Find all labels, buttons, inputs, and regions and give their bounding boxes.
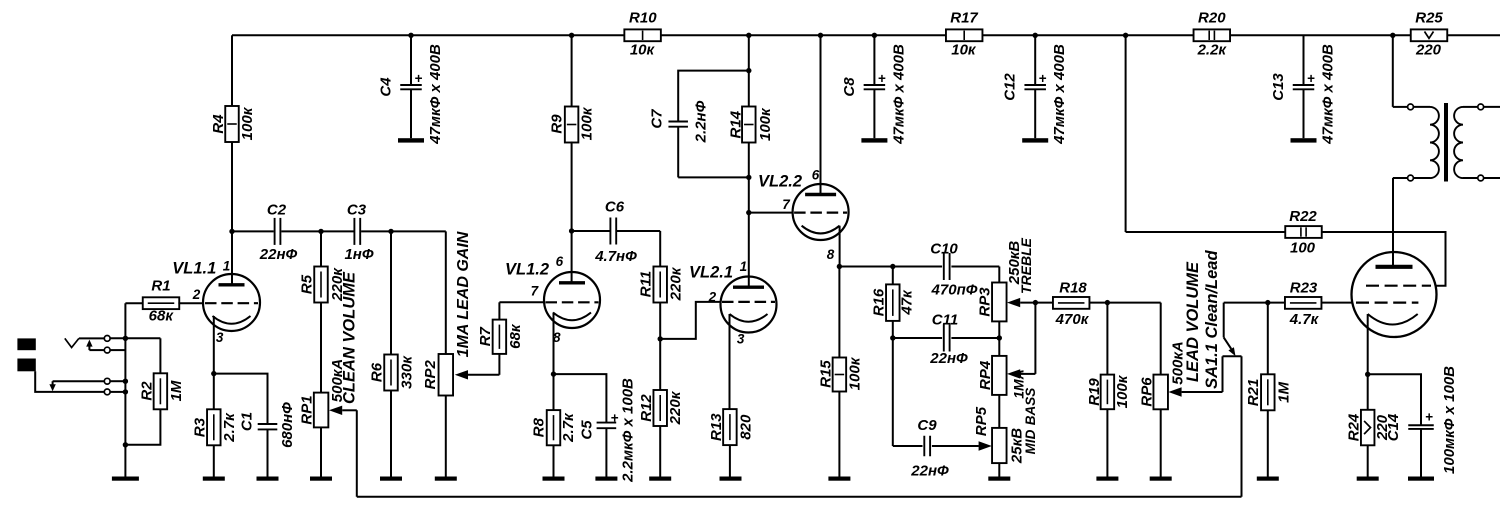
svg-text:+: + (1039, 71, 1047, 86)
svg-text:100к: 100к (579, 106, 596, 140)
svg-text:470пФ: 470пФ (931, 281, 978, 298)
svg-text:2: 2 (192, 287, 201, 302)
svg-text:6: 6 (812, 167, 820, 182)
svg-text:3: 3 (216, 330, 224, 345)
svg-text:+: + (1307, 71, 1315, 86)
svg-text:R19: R19 (1086, 378, 1103, 406)
svg-text:100: 100 (1290, 239, 1316, 256)
svg-text:C8: C8 (841, 77, 858, 97)
svg-text:VL1.1: VL1.1 (172, 260, 216, 278)
svg-text:R20: R20 (1198, 10, 1226, 27)
svg-text:R4: R4 (210, 114, 227, 134)
svg-text:R5: R5 (298, 274, 315, 294)
svg-text:47мкФ х 400В: 47мкФ х 400В (1051, 44, 1068, 145)
svg-text:R1: R1 (151, 278, 170, 295)
svg-text:2.7к: 2.7к (221, 412, 238, 443)
svg-text:2.2мкФ х 100В: 2.2мкФ х 100В (620, 378, 637, 483)
svg-text:8: 8 (827, 247, 835, 262)
svg-text:R11: R11 (638, 271, 655, 297)
svg-text:330к: 330к (398, 355, 415, 389)
svg-text:100мкФ х 100В: 100мкФ х 100В (1441, 366, 1458, 474)
svg-text:BASS: BASS (1023, 388, 1038, 426)
svg-text:R23: R23 (1290, 280, 1318, 297)
svg-text:100к: 100к (1114, 374, 1131, 408)
svg-text:68к: 68к (507, 323, 524, 349)
svg-text:3: 3 (737, 332, 745, 347)
svg-text:SA1.1 Clean/Lead: SA1.1 Clean/Lead (1203, 250, 1221, 389)
svg-text:RP3: RP3 (977, 287, 994, 317)
svg-text:RP4: RP4 (977, 360, 994, 390)
svg-text:+: + (1425, 410, 1433, 425)
svg-text:R14: R14 (727, 110, 744, 138)
svg-text:RP6: RP6 (1139, 377, 1156, 407)
svg-text:10к: 10к (951, 41, 977, 58)
svg-text:+: + (878, 71, 886, 86)
svg-text:220к: 220к (667, 390, 684, 425)
svg-text:820: 820 (738, 414, 755, 440)
svg-text:100к: 100к (239, 106, 256, 140)
svg-text:R6: R6 (369, 362, 386, 382)
svg-text:R18: R18 (1059, 280, 1087, 297)
svg-text:C2: C2 (267, 202, 287, 219)
svg-text:C12: C12 (1002, 73, 1019, 101)
svg-text:R15: R15 (818, 360, 835, 388)
svg-text:VL1.2: VL1.2 (505, 260, 549, 278)
svg-text:MID: MID (1023, 429, 1038, 454)
svg-text:10к: 10к (630, 41, 656, 58)
svg-text:1M: 1M (1276, 381, 1293, 402)
svg-text:470к: 470к (1055, 311, 1090, 328)
svg-text:R10: R10 (629, 10, 657, 27)
svg-text:RP1: RP1 (298, 395, 315, 424)
svg-text:VL2.2: VL2.2 (758, 172, 802, 190)
svg-text:4.7нФ: 4.7нФ (594, 248, 637, 265)
svg-text:680нФ: 680нФ (279, 402, 296, 448)
svg-text:100к: 100к (757, 107, 774, 141)
svg-text:R7: R7 (477, 326, 494, 346)
svg-text:R12: R12 (638, 394, 655, 422)
svg-text:C7: C7 (649, 109, 666, 129)
svg-text:2.2к: 2.2к (1197, 41, 1228, 58)
svg-text:47мкФ х 400В: 47мкФ х 400В (427, 44, 444, 145)
svg-text:RP5: RP5 (973, 406, 990, 436)
svg-text:C5: C5 (578, 420, 595, 440)
svg-text:C10: C10 (930, 240, 958, 257)
svg-text:C1: C1 (238, 412, 255, 431)
svg-text:R3: R3 (192, 417, 209, 437)
svg-text:1: 1 (740, 259, 748, 274)
svg-text:C13: C13 (1270, 73, 1287, 101)
svg-text:47мкФ х 400В: 47мкФ х 400В (1319, 44, 1336, 145)
svg-text:C11: C11 (932, 311, 958, 328)
svg-text:C9: C9 (917, 417, 937, 434)
svg-text:1: 1 (223, 258, 231, 273)
svg-text:C3: C3 (347, 202, 367, 219)
svg-text:R22: R22 (1289, 208, 1317, 225)
svg-text:22нФ: 22нФ (910, 462, 949, 479)
svg-text:22нФ: 22нФ (259, 246, 298, 263)
svg-text:47мкФ х 400В: 47мкФ х 400В (890, 44, 907, 145)
svg-text:4.7к: 4.7к (1289, 311, 1320, 328)
svg-text:R25: R25 (1415, 10, 1443, 27)
svg-text:C14: C14 (1385, 413, 1402, 441)
svg-text:+: + (611, 410, 619, 425)
svg-text:TREBLE: TREBLE (1018, 237, 1034, 294)
svg-text:6: 6 (556, 254, 564, 269)
svg-text:R8: R8 (531, 417, 548, 437)
svg-text:C6: C6 (605, 198, 625, 215)
svg-text:22нФ: 22нФ (929, 350, 968, 367)
svg-text:R9: R9 (549, 114, 566, 134)
svg-text:68к: 68к (149, 307, 175, 324)
svg-text:47к: 47к (898, 289, 915, 316)
svg-text:1нФ: 1нФ (344, 246, 373, 263)
svg-text:VL2.1: VL2.1 (689, 264, 733, 282)
svg-text:R24: R24 (1345, 413, 1362, 441)
svg-text:+: + (414, 71, 422, 86)
svg-text:R16: R16 (871, 288, 888, 316)
svg-text:LEAD VOLUME: LEAD VOLUME (1184, 261, 1202, 382)
svg-text:R13: R13 (708, 413, 725, 441)
svg-text:R17: R17 (950, 10, 978, 27)
svg-text:1M: 1M (168, 380, 185, 401)
svg-text:R21: R21 (1245, 379, 1262, 407)
svg-text:220к: 220к (667, 266, 684, 301)
svg-text:C4: C4 (377, 77, 394, 97)
svg-text:100к: 100к (847, 356, 864, 390)
svg-text:RP2: RP2 (422, 360, 439, 390)
svg-text:220: 220 (1415, 41, 1442, 58)
svg-text:2: 2 (708, 290, 717, 305)
svg-text:R2: R2 (138, 381, 155, 401)
svg-text:CLEAN VOLUME: CLEAN VOLUME (341, 271, 359, 404)
svg-text:2.7к: 2.7к (560, 412, 577, 443)
svg-text:2.2нФ: 2.2нФ (693, 100, 710, 143)
svg-text:1MA LEAD GAIN: 1MA LEAD GAIN (455, 231, 472, 357)
